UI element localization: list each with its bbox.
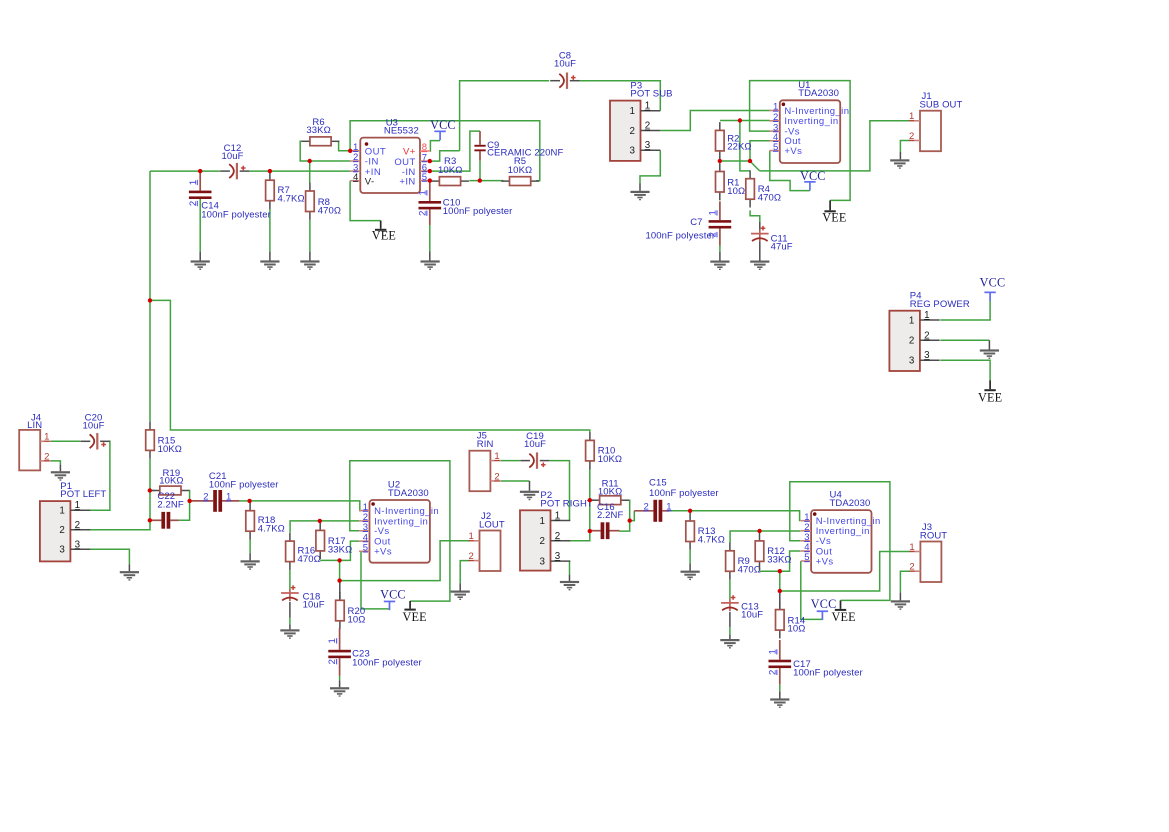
wire [770,151,810,191]
power VCC [811,597,837,620]
svg-text:1: 1 [226,492,231,503]
wire [619,500,630,531]
wire [479,161,481,181]
wire [429,225,431,252]
connector J3 ROUT [909,522,947,582]
wire [339,141,351,151]
svg-text:VEE: VEE [402,610,426,624]
ground [750,261,769,271]
junction pin6 U3 [428,169,432,173]
svg-text:33KΩ: 33KΩ [328,545,352,556]
junction R14 [778,589,782,593]
wire [750,81,851,201]
pin 5 (+Vs) of U1 [769,150,779,152]
junction out U2 [337,558,341,562]
pin 3 (+IN) of U3 [350,170,360,172]
capacitor C12 [220,143,249,179]
wire [179,491,190,521]
svg-text:3: 3 [59,545,65,556]
pin 8 (V+) of U3 [420,150,430,152]
svg-text:100nF polyester: 100nF polyester [443,206,513,217]
wire [569,575,571,581]
capacitor C16 [590,502,624,539]
capacitor C14 [188,171,271,220]
capacitor C22 [150,491,184,529]
capacitor C13 [721,595,763,620]
pin 2 of P3 [641,130,661,132]
power VCC [430,118,456,140]
wire [250,501,360,511]
pin 2 (-IN) of U3 [350,160,360,162]
capacitor C10 [417,181,512,225]
pin 2 (Inverting_in) of U1 [769,120,779,122]
wire [720,160,750,162]
svg-text:4.7KΩ: 4.7KΩ [698,534,725,545]
wire [729,627,731,634]
pin 1 of P3 [641,110,661,112]
pin 5 (+IN) of U3 [420,180,430,182]
pin 3 of P1 [70,548,90,550]
pin 2 of P2 [551,540,571,542]
resistor R6 [302,117,340,146]
power VCC [980,275,1006,301]
svg-text:10uF: 10uF [741,610,763,621]
pin 2 of J5 [490,480,500,482]
svg-text:1: 1 [75,500,80,511]
connector J1 SUB OUT [909,91,963,151]
wire [790,482,890,601]
svg-text:1: 1 [539,516,544,527]
wire [339,581,341,601]
wire [590,499,595,501]
wire [900,571,910,592]
connector J2 LOUT [468,511,504,571]
wire [289,625,291,630]
wire [750,141,770,161]
resistor R11 [591,479,629,505]
pin 1 (N-Inverting_in) of U2 [359,510,369,512]
power VEE [822,200,846,224]
ground [451,591,470,601]
svg-text:3: 3 [555,551,561,562]
pin 3 (-Vs) of U1 [769,130,779,132]
svg-text:1: 1 [44,432,49,443]
svg-text:2: 2 [44,451,49,462]
pin 4 (Out) of U1 [769,140,779,142]
resistor R10 [586,432,623,469]
svg-text:10KΩ: 10KΩ [598,454,622,465]
svg-text:POT LEFT: POT LEFT [60,489,106,500]
svg-text:REG POWER: REG POWER [910,299,970,310]
pin 4 (Out) of U2 [359,540,369,542]
wire [51,440,81,442]
wire [730,531,800,543]
ground [720,639,739,649]
svg-text:10uF: 10uF [303,600,325,611]
junction R11 [588,498,592,502]
wire [780,551,801,571]
pin 2 of J4 [40,460,50,462]
connector P1 POT LEFT [40,481,107,562]
svg-text:1: 1 [909,111,914,122]
resistor R3 [431,156,469,185]
svg-text:ROUT: ROUT [920,530,947,541]
wire [350,181,381,221]
wire [729,580,731,599]
ground [191,260,210,270]
resistor R20 [336,592,366,629]
junction R2 R1 [718,159,722,163]
wire [430,131,480,171]
wire [801,561,823,619]
power VEE [831,600,855,624]
pin 2 of J2 [469,560,479,562]
junction R18 [247,499,251,503]
svg-text:4: 4 [353,172,358,183]
svg-text:5: 5 [363,543,368,554]
wire [779,571,781,591]
wire [940,360,990,380]
wire [89,549,129,564]
svg-text:V-: V- [365,176,375,187]
svg-text:VEE: VEE [831,610,855,624]
junction R8 [308,159,312,163]
resistor R19 [152,468,190,495]
wire [740,121,750,171]
wire [639,183,641,191]
capacitor C11 [751,226,793,253]
power VCC [800,169,826,191]
wire [501,460,520,462]
junction C14 [198,169,202,173]
wire [269,252,271,261]
svg-text:2: 2 [188,201,199,206]
ground [241,560,260,570]
svg-text:1: 1 [924,310,929,321]
ground [980,349,999,359]
svg-text:2: 2 [629,126,634,137]
svg-text:3: 3 [75,539,81,550]
junction pin5 U3 [428,178,432,182]
ground [520,491,539,500]
svg-text:VCC: VCC [380,587,406,601]
wire [239,500,249,502]
svg-text:470Ω: 470Ω [298,554,321,565]
wire [89,459,150,530]
ground [710,261,729,271]
wire [760,570,780,572]
wire [309,252,311,261]
svg-text:VEE: VEE [372,229,396,243]
junction out U4 [778,569,782,573]
svg-text:100nF polyester: 100nF polyester [201,209,271,220]
wire [249,540,251,554]
wire [361,551,390,609]
ground [300,260,319,270]
wire [780,552,911,592]
svg-text:10KΩ: 10KΩ [438,165,462,176]
ground [560,581,579,591]
resistor R4 [746,170,781,207]
svg-text:100nF polyester: 100nF polyester [793,668,863,679]
svg-text:10KΩ: 10KΩ [598,487,622,498]
svg-text:POT RIGHT: POT RIGHT [540,498,593,509]
pin 1 of P4 [920,319,940,321]
pin 4 (V-) of U3 [350,180,360,182]
svg-text:10Ω: 10Ω [727,186,745,197]
junction C16 [588,529,592,533]
lead of C7 [719,201,721,220]
pin 3 of P4 [920,359,940,361]
junction C21 [187,499,191,503]
svg-text:470Ω: 470Ω [758,192,781,203]
svg-text:2: 2 [645,121,650,132]
wire [669,511,800,521]
wire [460,81,550,151]
pin 3 of P3 [641,149,661,151]
svg-text:3: 3 [645,140,651,151]
wire [640,150,660,183]
wire [940,339,989,341]
wire [529,481,531,491]
svg-text:5: 5 [422,172,427,183]
wire [249,553,251,560]
svg-text:10uF: 10uF [221,151,243,162]
wire [289,570,291,589]
svg-text:10Ω: 10Ω [788,624,806,635]
svg-text:LOUT: LOUT [479,519,505,530]
junction R17 [318,519,322,523]
wire [940,301,990,320]
svg-text:5: 5 [804,552,809,563]
wire [750,161,760,171]
svg-text:1: 1 [909,542,914,553]
wire [269,209,271,252]
pin 1 (N-Inverting_in) of U1 [769,110,779,112]
wire [501,480,530,482]
capacitor C23 [327,628,422,676]
svg-text:100nF polyester: 100nF polyester [649,488,719,499]
amplifier IC U2 TDA2030 [359,480,439,563]
capacitor C17 [767,640,862,684]
pin 1 of J3 [910,551,920,553]
pin 1 of J5 [490,460,500,462]
amplifier IC U4 TDA2030 [801,490,881,573]
svg-text:1: 1 [494,451,499,462]
svg-text:47uF: 47uF [771,242,793,253]
ground [630,191,649,200]
lead of C7 [719,229,721,246]
capacitor C7 [708,210,732,237]
capacitor C8 [550,51,579,89]
wire [128,564,130,571]
svg-text:3: 3 [539,556,545,567]
svg-text:1: 1 [188,180,199,185]
wire [309,161,311,183]
svg-text:TDA2030: TDA2030 [388,488,429,499]
wire [988,340,990,349]
pin 5 (+Vs) of U2 [359,550,369,552]
svg-text:1: 1 [666,501,671,512]
svg-text:VCC: VCC [811,597,837,611]
ground [51,471,70,480]
pin 3 (-Vs) of U2 [359,530,369,532]
svg-text:2.2NF: 2.2NF [157,499,183,510]
svg-text:CERAMIC 220NF: CERAMIC 220NF [487,148,563,159]
wire [660,111,770,131]
pin 5 (+Vs) of U4 [801,560,811,562]
wire [289,602,291,618]
resistor R13 [686,513,725,550]
wire [199,197,201,252]
junction R13 [688,509,692,513]
amplifier IC U1 TDA2030 [769,80,849,163]
svg-text:2: 2 [909,336,914,347]
wire [430,141,440,151]
wire [51,461,61,465]
svg-text:4.7KΩ: 4.7KΩ [278,193,305,204]
wire [150,300,590,432]
junction U1 pin2 [738,118,742,122]
junction R19 [148,488,152,492]
wire [89,441,110,510]
svg-text:10uF: 10uF [82,421,104,432]
wire [689,550,691,564]
pin 6 (-IN) of U3 [420,170,430,172]
pin 3 (-Vs) of U4 [801,540,811,542]
wire [779,684,781,691]
svg-text:10KΩ: 10KΩ [158,444,182,455]
power VEE [978,380,1002,404]
svg-text:VEE: VEE [978,390,1002,404]
wire [340,541,470,581]
svg-text:1: 1 [417,190,428,195]
ground [890,159,909,168]
svg-text:10uF: 10uF [554,59,576,70]
op-amp U3 NE5532 [350,118,430,194]
connector P2 POT RIGHT [520,490,593,570]
svg-text:2: 2 [909,562,914,573]
power VEE [402,601,426,624]
svg-text:2: 2 [767,670,778,675]
wire [760,121,910,171]
ground [260,260,279,270]
pin 2 (Inverting_in) of U2 [359,520,369,522]
svg-text:2.2NF: 2.2NF [597,510,623,521]
wire [899,152,901,159]
resistor R16 [286,533,321,570]
wire [339,680,341,687]
wire [759,242,761,261]
wire [430,151,460,161]
svg-text:1: 1 [645,101,650,112]
resistor R1 [716,163,746,200]
svg-text:22KΩ: 22KΩ [727,142,751,153]
resistor R8 [306,183,341,220]
resistor R7 [266,172,305,209]
junction branch [148,298,152,302]
svg-text:1: 1 [555,511,560,522]
pin 3 of P2 [551,560,571,562]
svg-text:2: 2 [909,131,914,142]
svg-text:1: 1 [708,210,719,215]
wire [779,591,781,610]
capacitor C15 [634,477,718,521]
wire [320,559,339,561]
svg-text:100nF polyester: 100nF polyester [209,480,279,491]
capacitor C21 [190,471,279,512]
resistor R2 [716,122,752,159]
pin 2 of J3 [910,570,920,572]
svg-text:1: 1 [629,106,634,117]
wire [250,170,351,172]
pin 1 of J4 [40,440,50,442]
svg-text:2: 2 [203,492,208,503]
svg-text:100nF polyester: 100nF polyester [646,231,716,242]
junction pin1 U3 [348,149,352,153]
wire [150,490,155,492]
wire [199,252,201,261]
svg-text:1: 1 [468,531,473,542]
pin 7 (OUT) of U3 [420,160,430,162]
wire [429,252,431,261]
wire [779,691,781,698]
pin 2 of P1 [70,529,90,531]
svg-text:1: 1 [327,638,338,643]
svg-text:2: 2 [75,520,80,531]
svg-text:33KΩ: 33KΩ [306,125,330,136]
power VCC [380,587,406,610]
svg-text:2: 2 [59,525,64,536]
wire [350,461,450,601]
wire [899,592,901,600]
wire [459,583,461,590]
connector J5 RIN [469,431,500,492]
svg-text:VEE: VEE [822,210,846,224]
wire [720,120,770,122]
svg-text:+Vs: +Vs [816,556,834,567]
svg-text:2: 2 [555,531,560,542]
svg-text:C15: C15 [649,477,667,488]
svg-text:33KΩ: 33KΩ [767,555,791,566]
svg-text:10KΩ: 10KΩ [159,475,183,486]
svg-text:POT SUB: POT SUB [630,89,672,100]
capacitor C18 [281,585,325,610]
resistor R12 [755,533,791,570]
connector P3 POT SUB [610,80,673,160]
resistor R14 [776,601,806,638]
resistor R15 [146,422,182,459]
svg-text:2: 2 [924,330,929,341]
svg-text:SUB OUT: SUB OUT [920,100,963,111]
capacitor C9 ceramic [474,131,563,161]
wire [750,210,760,222]
junction C9 [478,178,482,182]
pin 1 (N-Inverting_in) of U4 [801,520,811,522]
pin 1 of J1 [910,120,920,122]
wire [719,252,721,261]
wire [150,170,220,172]
pin 1 (OUT) of U3 [350,150,360,152]
svg-text:2: 2 [468,551,473,562]
junction R20 [337,578,341,582]
svg-text:LIN: LIN [27,420,42,431]
wire [339,560,341,580]
ground [330,687,349,697]
wire [339,676,341,680]
connector J4 LIN [19,413,50,471]
wire [729,612,731,627]
